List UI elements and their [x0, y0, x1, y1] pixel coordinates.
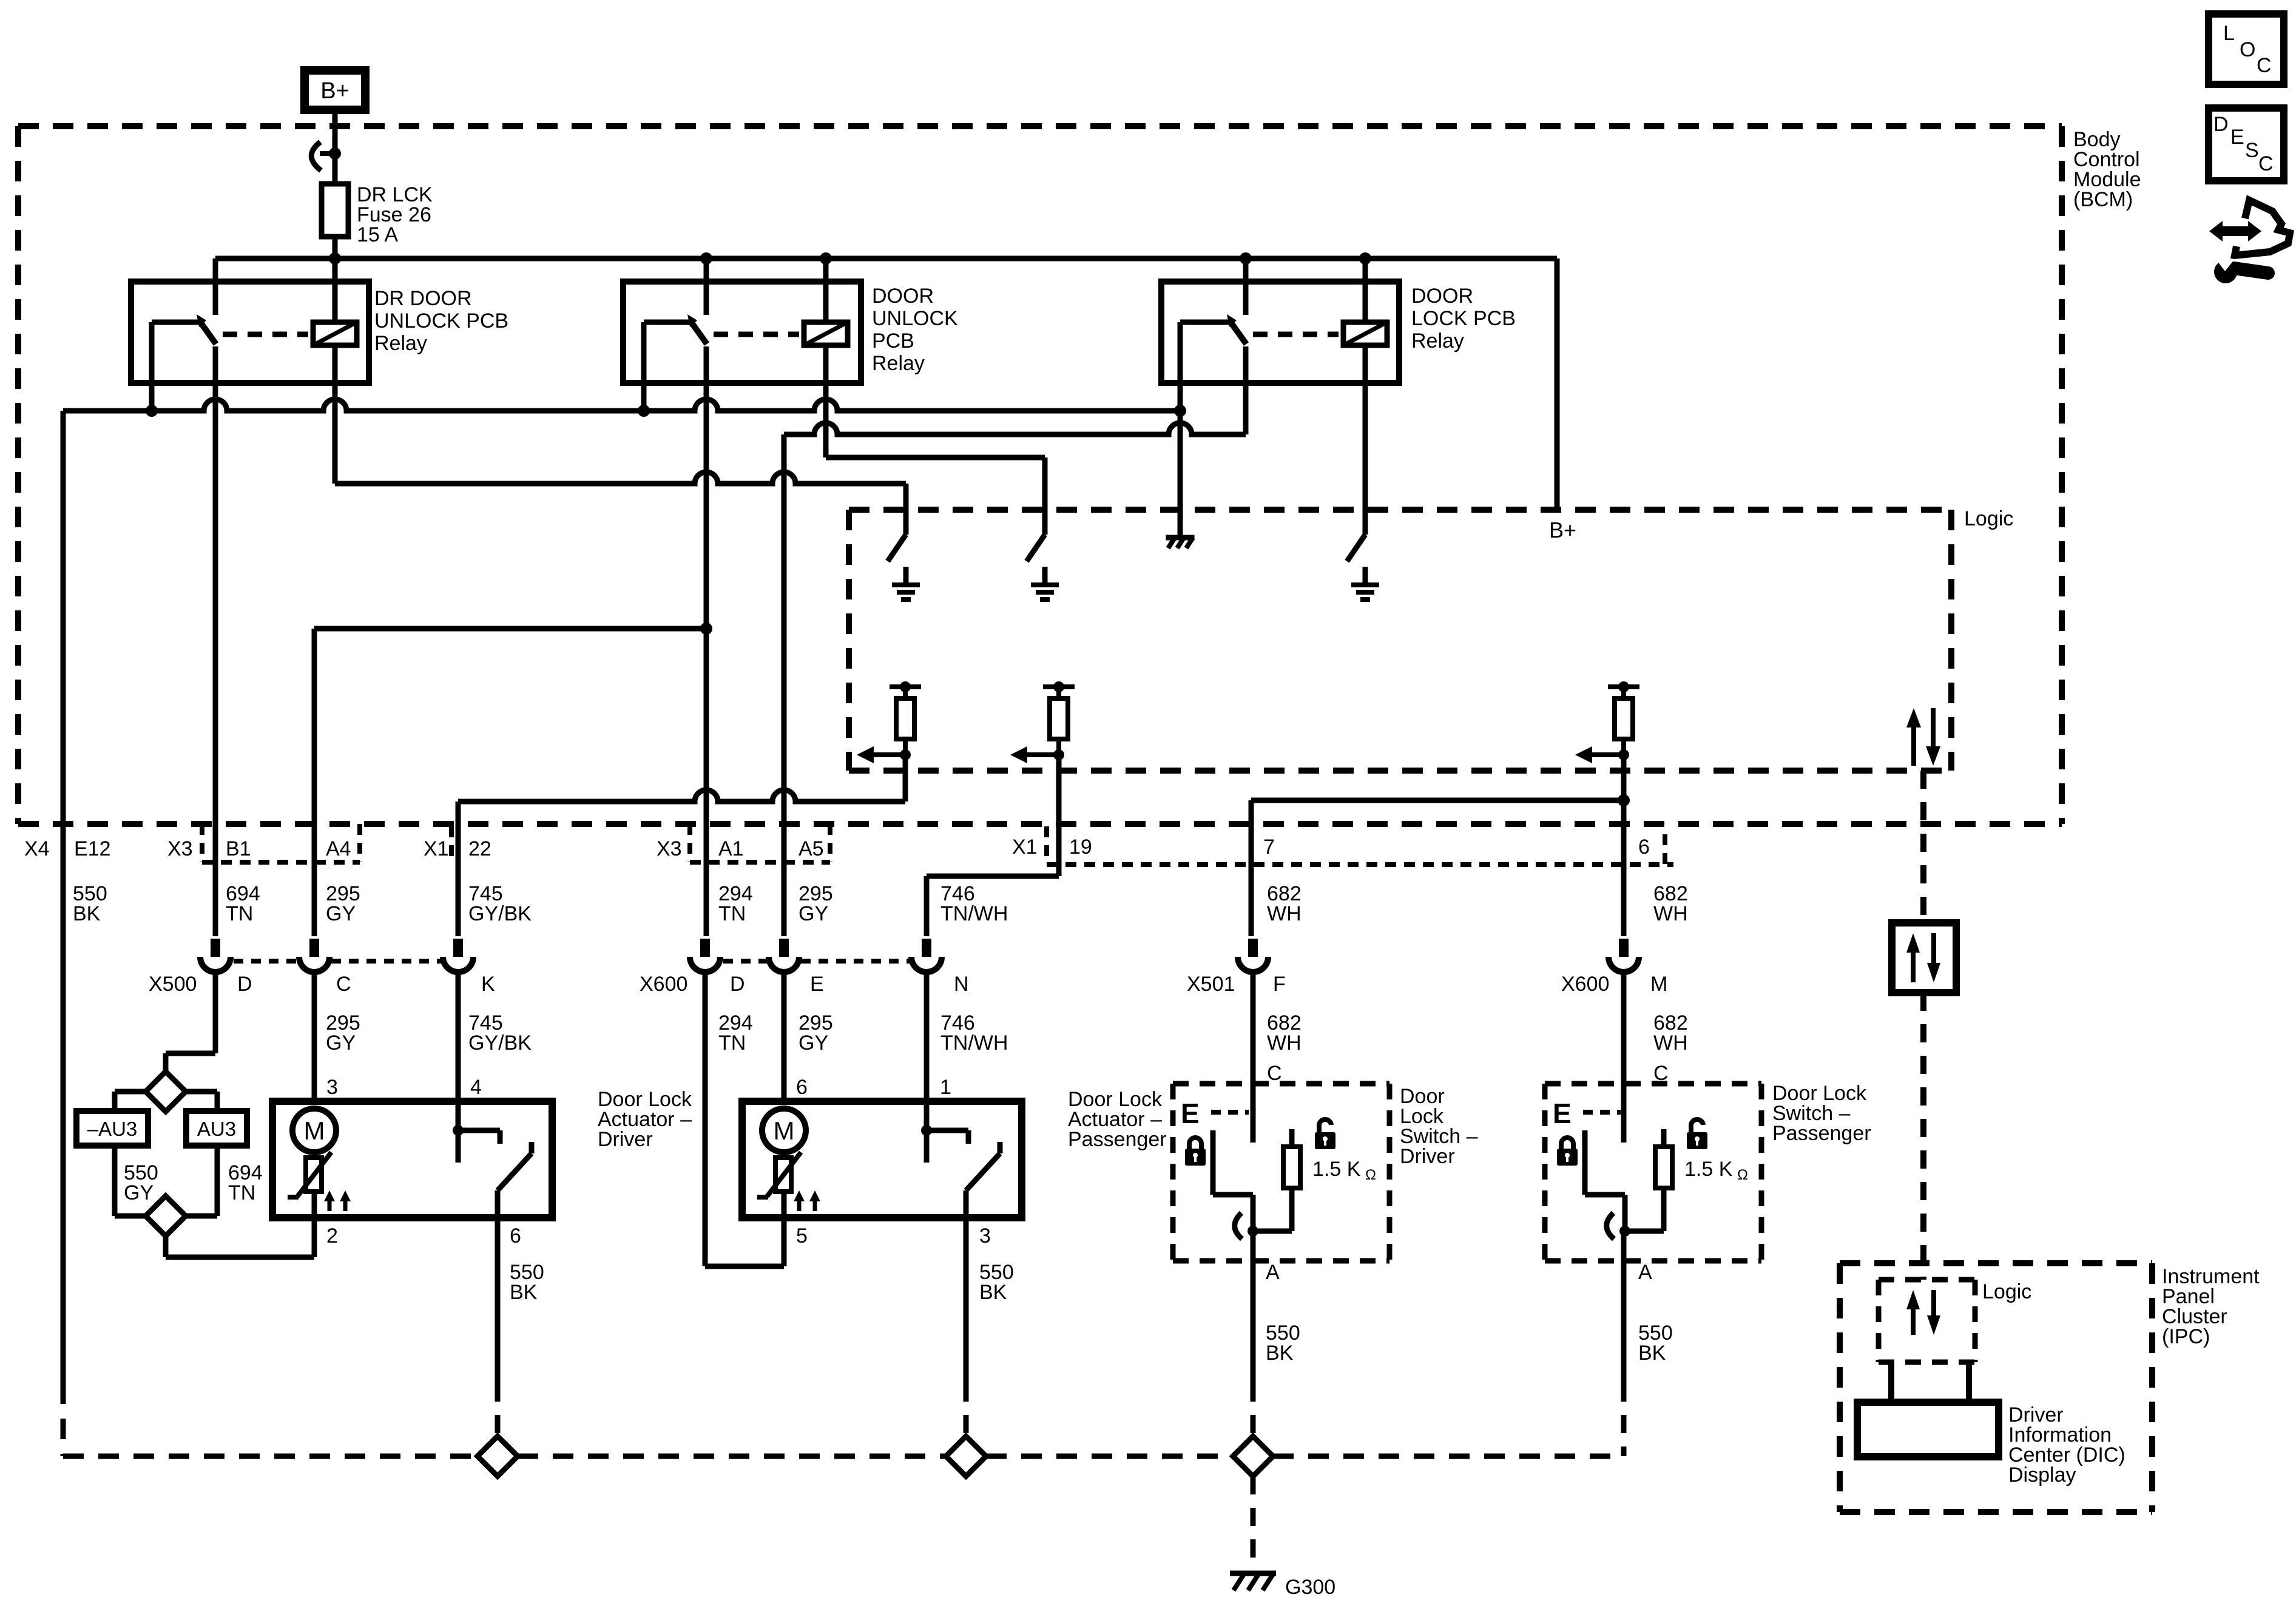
ground (logic switch 3) [1351, 567, 1379, 599]
wire bus1 to logic B+ [1555, 258, 1560, 513]
wire R1 to terminal 22 [458, 755, 905, 936]
svg-text:Relay: Relay [374, 332, 427, 355]
legend box LOC [2209, 14, 2284, 84]
wire X600-M to switch C [1621, 973, 1627, 1143]
pin labels X3 B1 A4 [167, 837, 351, 860]
svg-text:Display: Display [2008, 1463, 2076, 1487]
wire label 694 TN (B1) [226, 882, 260, 925]
svg-text:D: D [730, 973, 745, 996]
svg-text:1.5 K: 1.5 K [1312, 1158, 1361, 1181]
svg-text:TN: TN [718, 902, 746, 925]
label Door Lock Actuator - Driver [598, 1088, 692, 1151]
svg-text:GY: GY [326, 902, 356, 925]
resistor 1.5 K (passenger switch) [1625, 1129, 1672, 1231]
wire label 746 TN/WH (X600-N) [940, 1011, 1008, 1055]
svg-text:DR DOOR: DR DOOR [374, 287, 472, 310]
circuit breaker (driver actuator) [288, 1152, 331, 1197]
wire breaker to pin 2 [312, 1192, 317, 1218]
junction relay3 NC/ground bus [1174, 405, 1186, 417]
wires option boxes to lower splice [115, 1146, 217, 1216]
svg-text:6: 6 [1638, 836, 1650, 859]
svg-text:DOOR: DOOR [1411, 285, 1473, 308]
legend wrench icon [2213, 256, 2268, 283]
ground G300 [1230, 1573, 1335, 1599]
splice diamond (passenger actuator ground) [946, 1436, 986, 1476]
wire relay3 output to terminal A5 [784, 346, 1246, 936]
serial data up/down arrows (BCM logic) [1906, 708, 1940, 766]
connector X600 terminal M [1609, 939, 1639, 972]
Driver Information Center DIC Display box [1857, 1402, 1999, 1457]
wire actuator pin 5 to X600-D [705, 973, 784, 1266]
legend box DESC [2209, 108, 2284, 181]
svg-text:(IPC): (IPC) [2162, 1325, 2210, 1348]
label E contact (driver switch) [1181, 1098, 1249, 1129]
svg-text:D: D [2213, 113, 2229, 136]
svg-text:BK: BK [1266, 1342, 1294, 1365]
svg-text:A: A [1638, 1261, 1652, 1284]
connector X600 terminal N [911, 939, 942, 972]
svg-text:19: 19 [1069, 836, 1092, 859]
svg-text:GY/BK: GY/BK [468, 902, 532, 925]
door lock switch driver dashed box [1173, 1084, 1389, 1261]
svg-text:1.5 K: 1.5 K [1684, 1158, 1733, 1181]
wire label 745 GY/BK (X500-K) [468, 1011, 532, 1055]
svg-text:LOCK PCB: LOCK PCB [1411, 307, 1516, 330]
splice diamond (driver actuator ground) [478, 1436, 518, 1476]
wire lower splice to actuator pin 2 [166, 1218, 314, 1257]
svg-text:WH: WH [1267, 1031, 1302, 1055]
wire splice to G300 [1251, 1476, 1256, 1571]
svg-text:A: A [1266, 1261, 1280, 1284]
junction relay3 common/bus1 [1240, 252, 1252, 265]
svg-text:GY: GY [124, 1181, 154, 1204]
wire X500-C to actuator pin 3 [312, 973, 317, 1101]
switch arm (passenger switch) [1585, 1130, 1630, 1239]
door lock switch passenger dashed box [1545, 1084, 1761, 1261]
svg-text:M: M [1650, 973, 1667, 996]
wire relay1 output to terminal B1 [213, 346, 218, 936]
junction relay2 NC/ground bus [638, 405, 650, 417]
chassis ground (BCM internal) [1166, 538, 1194, 548]
wire label 294 TN (X600-D) [718, 1011, 753, 1055]
legend vehicle data icon [2209, 200, 2290, 255]
wire E12 550 BK to ground splice [61, 411, 66, 1456]
wire label 550 GY (-AU3) [124, 1161, 158, 1204]
label Door Lock Switch - Passenger [1772, 1082, 1871, 1145]
wire label 694 TN (AU3) [228, 1161, 263, 1204]
svg-text:X600: X600 [640, 973, 687, 996]
connector X500 terminal C [299, 939, 329, 972]
serial data dashed wire to IPC logic [1920, 993, 1926, 1280]
wire B+ to fuse [333, 110, 338, 184]
svg-text:Driver: Driver [1400, 1145, 1455, 1168]
wire label 746 TN/WH (19) [940, 882, 1008, 925]
svg-text:E: E [1553, 1098, 1572, 1129]
resistor R3 (BCM logic sense) [1575, 681, 1639, 763]
label Instrument Panel Cluster (IPC) [2162, 1265, 2260, 1348]
connector X600 terminal D [690, 939, 720, 972]
wires IPC logic to DIC display [1891, 1362, 1969, 1402]
svg-text:Logic: Logic [1982, 1280, 2031, 1303]
serial data symbol box [1892, 923, 1956, 993]
direction arrows (passenger actuator) [794, 1190, 820, 1211]
junction relay2 common/bus1 [700, 252, 712, 265]
connector X500 terminal D [200, 939, 231, 972]
svg-text:15 A: 15 A [357, 223, 398, 246]
Instrument Panel Cluster (IPC) dashed box [1840, 1263, 2152, 1512]
svg-text:5: 5 [796, 1224, 808, 1247]
svg-text:C: C [2257, 54, 2272, 77]
svg-text:Relay: Relay [872, 352, 925, 375]
svg-text:PCB: PCB [872, 329, 914, 353]
lock icon (passenger switch) [1557, 1138, 1578, 1166]
svg-text:C: C [2258, 152, 2274, 175]
resistor R2 (BCM logic sense) [1010, 681, 1075, 763]
labels X600 D E N [640, 973, 969, 996]
svg-text:X501: X501 [1187, 973, 1235, 996]
connector X3 sub-box (A1 A5) [690, 824, 830, 862]
label DOOR LOCK PCB Relay [1411, 285, 1516, 353]
unlock icon (driver switch) [1315, 1119, 1335, 1149]
svg-text:F: F [1273, 973, 1286, 996]
BCM Logic dashed box [849, 510, 1951, 771]
svg-text:Logic: Logic [1964, 507, 2013, 530]
svg-text:3: 3 [979, 1224, 991, 1247]
svg-text:E12: E12 [74, 837, 111, 860]
pin labels X3 A1 A5 [657, 837, 824, 860]
wire B+ feed bus [215, 256, 1557, 262]
svg-text:X3: X3 [167, 837, 193, 860]
ground (logic switch 2) [1031, 567, 1059, 599]
svg-text:C: C [1267, 1062, 1282, 1085]
switch arm (driver switch) [1213, 1130, 1258, 1239]
svg-text:Driver: Driver [598, 1128, 653, 1151]
wire label 682 WH C (X600-M) [1653, 1011, 1688, 1085]
connector X501 terminal F [1238, 939, 1268, 972]
svg-text:X500: X500 [149, 973, 197, 996]
svg-text:A5: A5 [799, 837, 824, 860]
IPC Logic dashed box [1879, 1280, 1975, 1362]
svg-text:Ω: Ω [1737, 1167, 1748, 1183]
label Door Lock Actuator - Passenger [1068, 1088, 1167, 1151]
wire X501-F to switch C [1251, 973, 1256, 1143]
relay K1 DR DOOR UNLOCK PCB Relay [131, 258, 369, 408]
svg-text:–AU3: –AU3 [87, 1118, 138, 1140]
direction arrows (driver actuator) [324, 1190, 351, 1211]
svg-text:X4: X4 [24, 837, 50, 860]
wire actuator pin 3 to ground splice [964, 1218, 969, 1436]
svg-text:GY: GY [326, 1031, 356, 1055]
svg-text:X600: X600 [1561, 973, 1609, 996]
svg-text:Relay: Relay [1411, 329, 1464, 353]
wire switch A to ground path [1621, 1231, 1627, 1456]
label DOOR UNLOCK PCB Relay [872, 285, 958, 375]
svg-text:M: M [774, 1116, 795, 1145]
svg-text:L: L [2223, 22, 2235, 45]
wire label 295 GY (X500-C) [326, 1011, 360, 1055]
option box -AU3 [76, 1092, 148, 1146]
serial data arrows (IPC logic) [1906, 1290, 1940, 1335]
motor M1 (driver actuator) [292, 1109, 336, 1152]
wire ground path 550 BK (dashed) [63, 1454, 1624, 1459]
wire relay2 output to terminal A1 [704, 346, 709, 936]
svg-text:G300: G300 [1285, 1576, 1335, 1599]
Body Control Module (BCM) dashed box [18, 126, 2062, 824]
label DR LCK Fuse 26 15 A [357, 183, 433, 246]
ground (logic switch 1) [892, 567, 920, 599]
resistor 1.5 K (driver switch) [1253, 1129, 1300, 1231]
svg-text:AU3: AU3 [197, 1118, 236, 1140]
labels X500 D C K [149, 973, 495, 996]
svg-text:4: 4 [470, 1076, 482, 1099]
svg-text:E: E [2230, 126, 2244, 149]
svg-text:B+: B+ [1549, 518, 1576, 542]
connector pin labels BCM X4/E12 [24, 837, 111, 860]
wire label 295 GY (X600-E) [799, 1011, 833, 1055]
svg-text:BK: BK [73, 902, 101, 925]
resistor R1 (BCM logic sense) [857, 681, 921, 763]
wire relay1 coil to logic switch 1 [335, 345, 906, 535]
wire label 550 BK (E12) [73, 882, 107, 925]
svg-text:WH: WH [1653, 902, 1688, 925]
svg-text:2: 2 [326, 1224, 338, 1247]
svg-text:3: 3 [326, 1076, 338, 1099]
pin labels X1 19 7 6 [1012, 836, 1650, 859]
svg-text:DOOR: DOOR [872, 285, 934, 308]
junction relay3 coil/bus1 [1359, 252, 1371, 265]
svg-text:M: M [304, 1116, 325, 1145]
wire switch A to G300 splice [1251, 1231, 1256, 1436]
junction terminal 7 branch [1618, 794, 1630, 806]
connector X3 sub-box (B1 A4) [202, 824, 360, 862]
svg-text:TN/WH: TN/WH [940, 902, 1008, 925]
wire label 295 GY (A4) [326, 882, 360, 925]
svg-text:E: E [1181, 1098, 1200, 1129]
svg-text:O: O [2240, 38, 2255, 61]
splice diamond (upper) [146, 1072, 186, 1112]
wire label 682 WH (7) [1267, 882, 1302, 925]
wire label 682 WH (6) [1653, 882, 1688, 925]
svg-text:B1: B1 [226, 837, 251, 860]
svg-text:GY: GY [799, 902, 828, 925]
label 1.5 K ohm (passenger switch) [1684, 1158, 1748, 1183]
logic driver switch 2 [1027, 535, 1045, 561]
svg-text:S: S [2245, 139, 2259, 162]
wire R2 to terminal 19 [927, 755, 1059, 936]
lock icon (driver switch) [1185, 1138, 1206, 1166]
svg-text:Ω: Ω [1365, 1167, 1376, 1183]
svg-text:B+: B+ [320, 78, 349, 104]
circuit breaker (passenger actuator) [757, 1152, 801, 1197]
wire label 550 BK (passenger switch) [1638, 1322, 1673, 1365]
wire X600-N to actuator pin 1 [924, 973, 930, 1101]
svg-text:1: 1 [940, 1076, 951, 1099]
wire ground bus (relay NC contacts) [63, 399, 1180, 411]
wire label 550 BK (passenger actuator pin 3) [979, 1261, 1014, 1304]
switch (driver actuator) [453, 1101, 532, 1218]
splice diamond (lower) [146, 1196, 186, 1236]
wire relay2 coil to logic switch 2 [826, 345, 1045, 535]
svg-text:22: 22 [468, 837, 491, 860]
svg-text:TN/WH: TN/WH [940, 1031, 1008, 1055]
svg-text:C: C [336, 973, 351, 996]
svg-text:WH: WH [1267, 902, 1302, 925]
relay K2 DOOR UNLOCK PCB Relay [623, 258, 861, 408]
svg-text:Passenger: Passenger [1772, 1122, 1871, 1145]
svg-text:6: 6 [796, 1076, 808, 1099]
connector X600 joining dashes [723, 959, 910, 964]
junction A4 branch [700, 623, 712, 635]
wire breaker to pin 5 [782, 1192, 787, 1218]
serial data dashed wire BCM to IPC [1920, 771, 1926, 919]
option box AU3 [186, 1092, 247, 1146]
connector X500 joining dashes [234, 959, 441, 964]
connector X600 terminal E [769, 939, 799, 972]
unlock icon (passenger switch) [1687, 1119, 1707, 1149]
wire X600-E to actuator pin 6 [782, 973, 787, 1101]
wire label 682 WH C (X501-F) [1267, 1011, 1302, 1085]
svg-text:A1: A1 [718, 837, 744, 860]
svg-text:GY: GY [799, 1031, 828, 1055]
power symbol B+ [305, 70, 365, 110]
wire label 550 BK (driver switch) [1266, 1322, 1300, 1365]
labels X501 F [1187, 973, 1286, 996]
junction relay2 coil/bus1 [820, 252, 832, 265]
door lock actuator passenger box [742, 1101, 1022, 1218]
svg-text:X1: X1 [1012, 836, 1038, 859]
labels X600 M [1561, 973, 1667, 996]
svg-text:BK: BK [979, 1281, 1007, 1304]
door lock actuator driver box [272, 1101, 552, 1218]
svg-text:A4: A4 [326, 837, 351, 860]
svg-text:X1: X1 [424, 837, 449, 860]
junction relay1 NC/ground bus [146, 405, 158, 417]
connector X1 sub-row (19 7 6) [1047, 826, 1673, 869]
svg-text:TN: TN [226, 902, 253, 925]
label Body Control Module (BCM) [2073, 128, 2141, 211]
svg-text:X3: X3 [657, 837, 682, 860]
svg-text:6: 6 [510, 1224, 521, 1247]
svg-text:UNLOCK PCB: UNLOCK PCB [374, 309, 508, 333]
svg-text:UNLOCK: UNLOCK [872, 307, 958, 330]
fuse DR LCK Fuse 26 15 A [322, 184, 348, 237]
svg-text:TN: TN [718, 1031, 746, 1055]
connector X500 terminal K [443, 939, 473, 972]
svg-text:BK: BK [510, 1281, 538, 1304]
svg-text:7: 7 [1263, 836, 1275, 859]
wire fuse to bus [333, 237, 338, 258]
svg-text:D: D [237, 973, 252, 996]
wire actuator pin 6 to ground splice [495, 1218, 501, 1436]
motor M2 (passenger actuator) [762, 1109, 806, 1152]
wire R3 to terminal 6 and terminal 7 [1251, 755, 1624, 936]
wire relay3 NC to chassis ground [1178, 411, 1183, 536]
relay K3 DOOR LOCK PCB Relay [1161, 258, 1399, 408]
svg-text:GY/BK: GY/BK [468, 1031, 532, 1055]
svg-text:WH: WH [1653, 1031, 1688, 1055]
svg-text:E: E [810, 973, 824, 996]
wire label 745 GY/BK (22) [468, 882, 532, 925]
logic driver switch 1 [888, 535, 906, 561]
splice diamond (G300) [1233, 1436, 1273, 1476]
pin labels X1 22 [424, 826, 491, 862]
wire branch to terminal A4 [314, 629, 706, 936]
svg-text:(BCM): (BCM) [2073, 188, 2133, 211]
wire X500-D to option splice [166, 973, 215, 1073]
logic driver switch 3 [1347, 345, 1365, 561]
svg-text:Passenger: Passenger [1068, 1128, 1167, 1151]
label E contact (passenger switch) [1553, 1098, 1621, 1129]
label Door Lock Switch - Driver [1400, 1085, 1478, 1168]
wire label 550 BK (driver actuator pin 6) [510, 1261, 544, 1304]
svg-text:BK: BK [1638, 1342, 1666, 1365]
wire label 294 TN (A1) [718, 882, 753, 925]
label Driver Information Center (DIC) Display [2008, 1403, 2125, 1487]
svg-text:K: K [481, 973, 495, 996]
label 1.5 K ohm (driver switch) [1312, 1158, 1376, 1183]
wire X500-K to actuator pin 4 [456, 973, 461, 1101]
svg-text:TN: TN [228, 1181, 255, 1204]
wire label 295 GY (A5) [799, 882, 833, 925]
svg-text:N: N [954, 973, 969, 996]
in-line clip symbol on B+ feed [311, 142, 341, 170]
switch (passenger actuator) [921, 1101, 1000, 1218]
label DR DOOR UNLOCK PCB Relay [374, 287, 508, 355]
junction fuse/bus1 [329, 252, 341, 265]
